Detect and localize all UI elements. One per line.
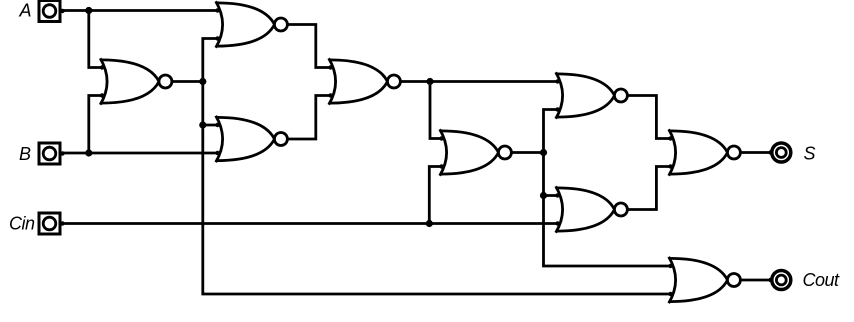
svg-text:Cin: Cin [9, 214, 35, 234]
svg-text:B: B [19, 144, 31, 164]
svg-text:Cout: Cout [803, 270, 841, 290]
svg-text:A: A [19, 1, 32, 21]
svg-text:S: S [804, 144, 816, 164]
